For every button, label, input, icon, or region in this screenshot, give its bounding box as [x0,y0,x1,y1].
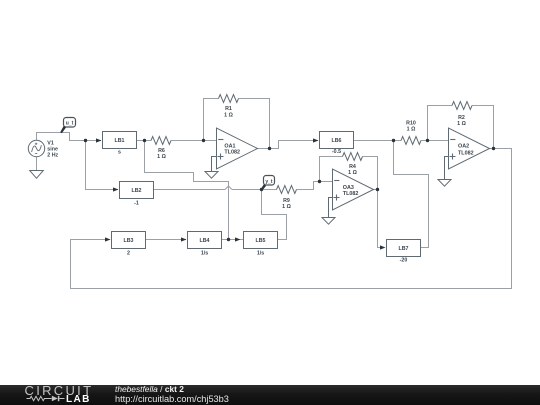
svg-text:LAB: LAB [66,394,91,405]
ground (OA1) [205,172,218,179]
node LB6 out junction [392,139,395,142]
arrow into LB7 [380,245,386,249]
label R1 [224,106,233,118]
node A junction (LB1 out) [143,139,146,142]
label OA3 [343,185,359,197]
wire node A step down to LB4-LB5 net [145,141,229,240]
label LB4 [199,238,209,256]
net flag u_t pointer [60,126,66,133]
node OA3 output junction [376,188,379,191]
wire hop [225,186,232,190]
label R9 [282,198,291,210]
wire R10 to OA2 minus [421,140,449,142]
wire LB3 out to LB4 [146,239,187,241]
node u_t junction [84,139,87,142]
node OA2 output junction [492,147,495,150]
label LB5 [255,238,265,256]
arrow into LB5 [235,237,241,241]
node R10 right junction [426,139,429,142]
label LB7 [398,246,408,263]
wire R1 feedback right [239,99,270,149]
resistor R4 [343,153,363,161]
block LB1 [103,132,137,149]
resistor R2 [452,102,472,110]
wire R2 feedback left [428,106,453,141]
block LB3 [112,232,146,249]
wire OA3 plus to ground [329,198,333,218]
block LB5 [244,232,278,249]
wire OA2 plus to ground [445,157,449,180]
op-amp OA3 [333,169,374,210]
label LB3 [123,238,133,256]
wire LB4 out to LB5 [222,239,244,241]
block LB4 [188,232,222,249]
node y_t junction [260,188,263,191]
arrow into LB6 [313,138,319,142]
net flag y_t pointer [261,184,267,190]
wire OA3 out down to LB7 [374,190,385,248]
label R10 [406,120,416,132]
resistor R10 [401,137,421,145]
label LB6 [331,138,341,155]
net flag u_t box [64,118,76,128]
label OA1 [224,144,240,156]
wire V1 bottom [36,157,38,171]
wire node u_t drop to LB2 [86,141,119,190]
label R6 [157,148,166,160]
wire LB2 out to node y_t [154,189,262,191]
node LB4 out junction [227,238,230,241]
op-amp OA2 [449,128,490,169]
wire LB5 out loop up to node y_t [262,190,287,240]
arrow into LB2 [113,187,119,191]
label LB2 [131,188,141,206]
arrow into LB4 [181,237,187,241]
arrow into LB3 [105,237,111,241]
label OA2 [458,144,474,157]
resistor R6 [151,137,171,145]
wire LB7 out riser to R10 node [394,141,429,248]
wire R9 to OA3 minus [297,182,333,190]
node OA1 output junction [268,147,271,150]
ground (OA3) [322,218,335,225]
wire R1 feedback left [204,99,219,141]
footer bar [0,385,540,405]
voltage source V1 [28,140,44,156]
node OA3 minus junction [318,180,321,183]
wire LB6 out to R10 [354,140,402,142]
wire R4 feedback right [363,157,378,190]
ground (OA2) [438,180,451,187]
block LB2 [120,182,154,199]
label R2 [457,115,466,127]
wire LB1 out to R6 [137,140,152,142]
op-amp OA1 [217,128,258,169]
wire y_t to R9 [262,189,277,191]
wire R2 feedback right [472,106,494,149]
label R4 [348,164,357,176]
label LB1 [114,138,124,155]
wire R6 to OA1 minus [171,140,217,142]
resistor R1 [219,95,239,103]
wire OA1 plus to ground [212,157,217,172]
arrow into LB1 [96,138,102,142]
node R1 left junction [202,139,205,142]
CircuitLab logo [25,383,94,405]
footer text [115,385,184,394]
label V1 [47,141,58,159]
wire OA1 out to LB6 [258,141,319,149]
ground (V1) [30,171,44,179]
block LB7 [387,240,421,257]
block LB6 [320,132,354,149]
wire R4 feedback left [320,157,343,182]
wire V1 top to node u_t [37,133,102,141]
resistor R9 [277,186,297,194]
net flag y_t box [264,176,275,186]
wire OA2 out, bottom feedback loop to LB3 [71,149,512,289]
